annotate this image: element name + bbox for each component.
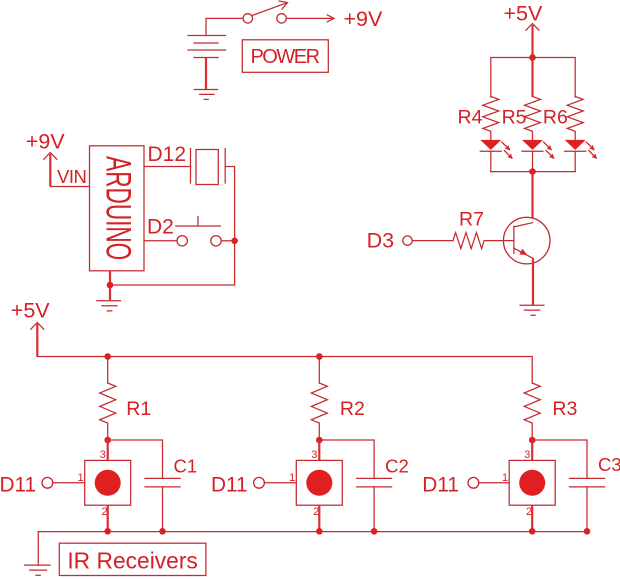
svg-text:D11: D11	[0, 474, 36, 497]
wire R3 to C3	[532, 440, 587, 478]
arduino U1 box	[90, 146, 145, 271]
IR receiver U3 lens	[306, 470, 332, 496]
node rail R1	[104, 353, 111, 360]
node gnd rail c1	[159, 528, 166, 535]
pin3 stub ir3	[531, 440, 533, 460]
wire battery bottom to ground	[205, 58, 207, 90]
svg-text:3: 3	[311, 449, 317, 461]
svg-text:D11: D11	[211, 474, 248, 497]
pushbutton S2	[176, 217, 235, 247]
node arduino gnd junction	[107, 282, 114, 289]
svg-text:VIN: VIN	[57, 166, 86, 187]
wire led bottom rail	[491, 171, 575, 173]
node rail R2	[316, 353, 323, 360]
POWER label box	[242, 40, 328, 73]
resistor R1	[100, 383, 116, 440]
ground (ir rail)	[25, 565, 51, 575]
LED D5	[522, 140, 554, 172]
wire D3 to R7	[412, 240, 453, 242]
ground (battery)	[194, 90, 218, 100]
ground (transistor)	[520, 305, 544, 315]
IR receiver U2 lens	[95, 470, 121, 496]
resistor R6	[567, 97, 583, 140]
node gnd rail ir3	[529, 528, 536, 535]
svg-text:+9V: +9V	[344, 7, 384, 31]
resistor R4	[483, 97, 499, 140]
resistor R7	[453, 233, 484, 249]
svg-text:+9V: +9V	[26, 130, 66, 154]
svg-text:D12: D12	[148, 143, 187, 166]
capacitor C1	[145, 478, 180, 531]
svg-text:C3: C3	[598, 454, 620, 475]
capacitor C2	[357, 478, 392, 531]
battery B1	[188, 36, 226, 58]
node R2 bottom junction	[316, 437, 323, 444]
wire led top rail	[491, 58, 575, 98]
wire to collector	[531, 172, 533, 223]
svg-text:+5V: +5V	[11, 299, 51, 323]
wire D2 to button	[144, 240, 177, 242]
wire center drop	[531, 58, 533, 98]
LED D6	[565, 140, 597, 172]
switch S1	[243, 1, 287, 23]
pin2 stub ir1	[107, 505, 109, 532]
svg-text:D11: D11	[422, 474, 459, 497]
wire switch to +9V arrow	[286, 15, 334, 22]
terminal D11 (ir1)	[42, 477, 53, 488]
node R1 bottom junction	[104, 437, 111, 444]
node gnd rail c2	[371, 528, 378, 535]
resistor R2	[311, 383, 327, 440]
wire rail to R1	[107, 357, 109, 384]
wire D11 to ir3	[479, 482, 509, 484]
wire R7 to base	[485, 240, 514, 242]
IR Receivers label box	[59, 543, 206, 575]
IR receiver U4 lens	[519, 470, 545, 496]
svg-text:D2: D2	[147, 216, 174, 239]
svg-text:R7: R7	[459, 209, 484, 231]
pin2 stub ir3	[531, 505, 533, 532]
svg-text:+5V: +5V	[504, 1, 544, 25]
wire R1 to C1	[108, 440, 163, 478]
wire D12 to piezo	[144, 166, 191, 168]
svg-text:R3: R3	[552, 398, 577, 420]
resistor R5	[525, 97, 541, 140]
pin3 stub ir1	[107, 440, 109, 460]
terminal D3	[403, 236, 412, 245]
svg-text:ARDUINO: ARDUINO	[98, 156, 137, 260]
wire gnd rail	[38, 531, 587, 533]
svg-text:R5: R5	[502, 107, 527, 129]
ground (arduino)	[97, 301, 121, 311]
svg-text:C1: C1	[174, 455, 198, 476]
wire gnd drop left	[37, 532, 39, 566]
arrow +5V ir rail	[31, 323, 44, 357]
svg-text:POWER: POWER	[250, 46, 319, 68]
svg-text:R6: R6	[543, 107, 568, 129]
node gnd rail ir1	[104, 528, 111, 535]
node gnd rail c3	[584, 528, 591, 535]
wire R2 to C2	[319, 440, 374, 478]
arrow up +9V vin	[44, 153, 90, 187]
terminal D11 (ir3)	[468, 477, 479, 488]
pin2 stub ir2	[318, 505, 320, 532]
svg-text:R1: R1	[126, 398, 151, 420]
wire piezo right down to D2 node and to ground wire	[110, 167, 235, 286]
node led bottom junction	[529, 168, 536, 175]
transistor Q1	[503, 217, 550, 305]
svg-text:C2: C2	[385, 455, 409, 476]
svg-text:3: 3	[100, 449, 106, 461]
IR receiver U3 box	[296, 460, 342, 505]
node led top junction	[529, 54, 536, 61]
node R3 bottom junction	[529, 437, 536, 444]
pin3 stub ir2	[318, 440, 320, 460]
svg-text:IR Receivers: IR Receivers	[67, 548, 197, 574]
svg-text:R4: R4	[458, 107, 483, 129]
svg-text:D3: D3	[367, 229, 395, 253]
capacitor C3	[570, 478, 605, 531]
wire rail to R2	[318, 357, 320, 384]
terminal D11 (ir2)	[254, 477, 265, 488]
IR receiver U4 box	[509, 460, 555, 505]
wire arduino gnd	[109, 271, 111, 301]
wire +5V rail	[37, 357, 532, 384]
IR receiver U2 box	[85, 460, 131, 505]
node D2-button junction	[231, 238, 238, 245]
arduino text	[98, 156, 137, 260]
wire battery top to switch	[206, 18, 243, 35]
wire D11 to ir2	[264, 482, 296, 484]
node gnd rail ir2	[316, 528, 323, 535]
LED D4	[480, 140, 512, 172]
piezo Y1	[191, 149, 226, 185]
wire D11 to ir1	[53, 482, 85, 484]
svg-text:3: 3	[524, 449, 530, 461]
arrow +5V to led rail	[526, 24, 539, 58]
svg-text:R2: R2	[340, 398, 365, 420]
resistor R3	[524, 383, 540, 440]
